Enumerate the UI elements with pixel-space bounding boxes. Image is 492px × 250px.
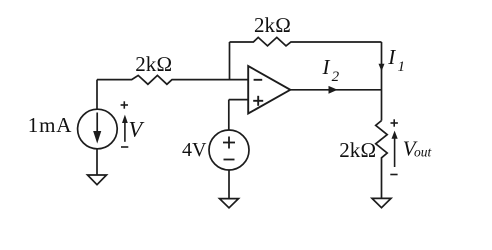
svg-text:2kΩ: 2kΩ xyxy=(339,138,376,162)
svg-text:2: 2 xyxy=(332,69,340,85)
svg-text:2kΩ: 2kΩ xyxy=(254,13,291,37)
svg-text:1mA: 1mA xyxy=(28,113,72,137)
svg-text:2kΩ: 2kΩ xyxy=(135,52,172,76)
svg-text:4V: 4V xyxy=(182,139,207,161)
svg-text:out: out xyxy=(414,145,433,160)
svg-text:I: I xyxy=(322,55,331,79)
svg-text:V: V xyxy=(129,117,145,142)
svg-text:I: I xyxy=(387,45,396,69)
svg-text:1: 1 xyxy=(398,59,406,75)
